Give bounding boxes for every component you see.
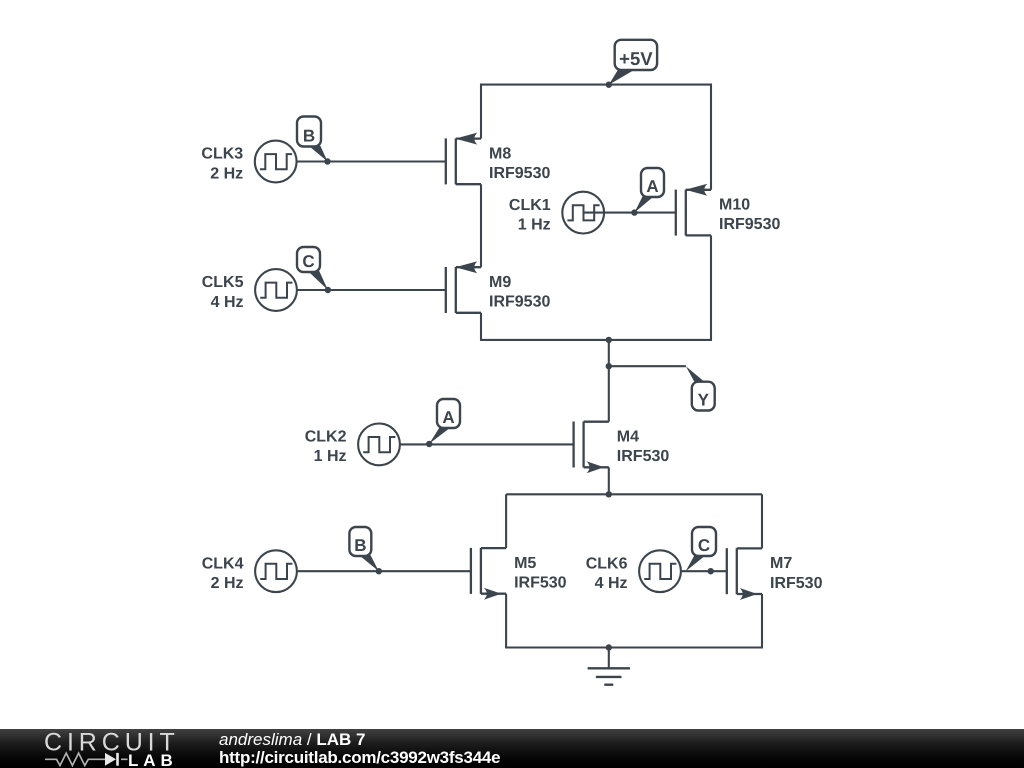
junction ground xyxy=(606,644,612,650)
svg-text:CLK2: CLK2 xyxy=(305,429,347,446)
svg-text:CLK6: CLK6 xyxy=(586,555,628,572)
svg-text:2 Hz: 2 Hz xyxy=(211,575,244,592)
node C flag xyxy=(297,247,328,290)
CircuitLab logo xyxy=(43,729,193,768)
svg-text:A: A xyxy=(442,408,454,427)
transistor M9 PMOS IRF9530 xyxy=(446,261,551,313)
wire VDD to M8 drain xyxy=(480,84,482,139)
wire NMOS top rail xyxy=(506,493,762,495)
wire M7 source down xyxy=(761,594,763,649)
wire from CLK5 xyxy=(297,289,446,291)
wire from CLK2 xyxy=(400,443,574,445)
wire to Y flag xyxy=(609,365,686,367)
resistor-diode squiggle xyxy=(45,753,128,765)
svg-text:IRF530: IRF530 xyxy=(770,575,823,592)
wire M10 source down xyxy=(710,235,712,341)
svg-text:C: C xyxy=(698,536,710,555)
svg-text:C: C xyxy=(302,252,314,271)
junction PMOS rail / output xyxy=(606,337,612,343)
svg-text:M4: M4 xyxy=(617,429,639,446)
svg-text:4 Hz: 4 Hz xyxy=(595,575,628,592)
transistor M5 NMOS IRF530 xyxy=(471,548,567,600)
junction Y tap xyxy=(606,363,612,369)
junction node B tap xyxy=(324,158,330,164)
wire VDD top rail xyxy=(481,84,711,86)
node A flag (M4 gate) xyxy=(429,399,460,444)
svg-text:LAB: LAB xyxy=(128,751,178,768)
svg-text:IRF9530: IRF9530 xyxy=(489,165,550,182)
voltage source CLK3 2 Hz xyxy=(201,141,296,183)
junction VDD xyxy=(606,82,612,88)
wire from CLK6 xyxy=(681,570,727,572)
junction NMOS top rail xyxy=(606,491,612,497)
node A flag (M10 gate) xyxy=(634,168,664,213)
junction C wire xyxy=(708,568,714,574)
wire ground rail xyxy=(506,646,762,648)
voltage source CLK2 1 Hz xyxy=(305,424,400,466)
wire M5 source down xyxy=(505,594,507,649)
voltage source CLK6 4 Hz xyxy=(586,550,681,592)
voltage source CLK5 4 Hz xyxy=(202,269,297,311)
junction node A tap 2 xyxy=(426,441,432,447)
transistor M7 NMOS IRF530 xyxy=(727,548,823,600)
svg-text:IRF530: IRF530 xyxy=(617,448,670,465)
power flag +5V xyxy=(609,40,657,85)
wire to M7 drain xyxy=(761,494,763,548)
svg-text:IRF530: IRF530 xyxy=(514,575,567,592)
svg-text:M5: M5 xyxy=(514,555,536,572)
svg-text:2 Hz: 2 Hz xyxy=(210,165,243,182)
wire output to M4 drain xyxy=(608,340,610,422)
transistor M10 PMOS IRF9530 xyxy=(676,184,781,236)
svg-text:M9: M9 xyxy=(489,274,511,291)
node Y flag xyxy=(686,366,715,410)
svg-text:A: A xyxy=(646,177,658,196)
junction node C tap xyxy=(325,287,331,293)
svg-text:M7: M7 xyxy=(770,555,792,572)
junction node A tap xyxy=(631,209,637,215)
node B flag (M5 gate) xyxy=(349,527,378,571)
wire from CLK3 xyxy=(297,160,446,162)
transistor M4 NMOS IRF530 xyxy=(574,422,670,474)
ground xyxy=(588,648,630,685)
wire VDD to M10 drain xyxy=(710,84,712,190)
svg-text:IRF9530: IRF9530 xyxy=(489,294,550,311)
svg-text:IRF9530: IRF9530 xyxy=(719,216,780,233)
wire from CLK1 xyxy=(583,212,676,214)
wire M8 source to M9 drain xyxy=(480,184,482,267)
transistor M8 PMOS IRF9530 xyxy=(446,133,551,185)
voltage source CLK1 1 Hz xyxy=(509,192,604,234)
wire from CLK4 xyxy=(297,570,471,572)
junction node B tap 2 xyxy=(376,568,382,574)
wire M4 source down xyxy=(608,467,610,494)
node C flag (M7 gate) xyxy=(686,527,716,571)
svg-text:1 Hz: 1 Hz xyxy=(314,448,347,465)
node B flag xyxy=(297,117,328,162)
svg-text:CLK4: CLK4 xyxy=(202,555,244,572)
voltage source CLK4 2 Hz xyxy=(202,550,297,592)
svg-text:M8: M8 xyxy=(489,145,511,162)
svg-text:4 Hz: 4 Hz xyxy=(211,294,244,311)
wire M9 source down xyxy=(480,313,482,341)
svg-text:CLK3: CLK3 xyxy=(201,146,243,163)
svg-text:1 Hz: 1 Hz xyxy=(518,216,551,233)
svg-text:CLK1: CLK1 xyxy=(509,197,551,214)
svg-text:Y: Y xyxy=(698,390,710,409)
wire to M5 drain xyxy=(505,494,507,548)
wire PMOS output rail xyxy=(481,339,711,341)
svg-text:B: B xyxy=(354,536,366,555)
svg-text:M10: M10 xyxy=(719,197,750,214)
svg-text:B: B xyxy=(303,126,315,145)
svg-text:CLK5: CLK5 xyxy=(202,274,244,291)
svg-text:+5V: +5V xyxy=(619,48,653,69)
